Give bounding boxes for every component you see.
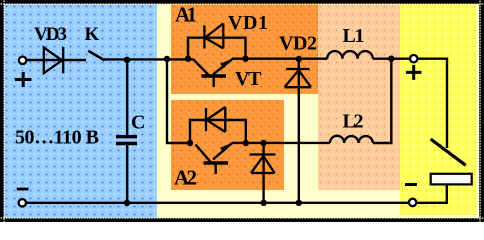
- svg-text:C: C: [131, 112, 145, 134]
- svg-text:VD2: VD2: [279, 33, 317, 55]
- svg-text:A2: A2: [174, 165, 197, 189]
- svg-text:VD3: VD3: [34, 24, 67, 45]
- svg-text:VT: VT: [235, 68, 262, 90]
- svg-text:VD1: VD1: [228, 12, 268, 34]
- svg-text:K: K: [85, 24, 100, 45]
- svg-text:50…110 В: 50…110 В: [15, 127, 99, 149]
- svg-text:L1: L1: [343, 25, 365, 47]
- svg-text:L2: L2: [343, 111, 364, 133]
- svg-text:A1: A1: [175, 2, 197, 26]
